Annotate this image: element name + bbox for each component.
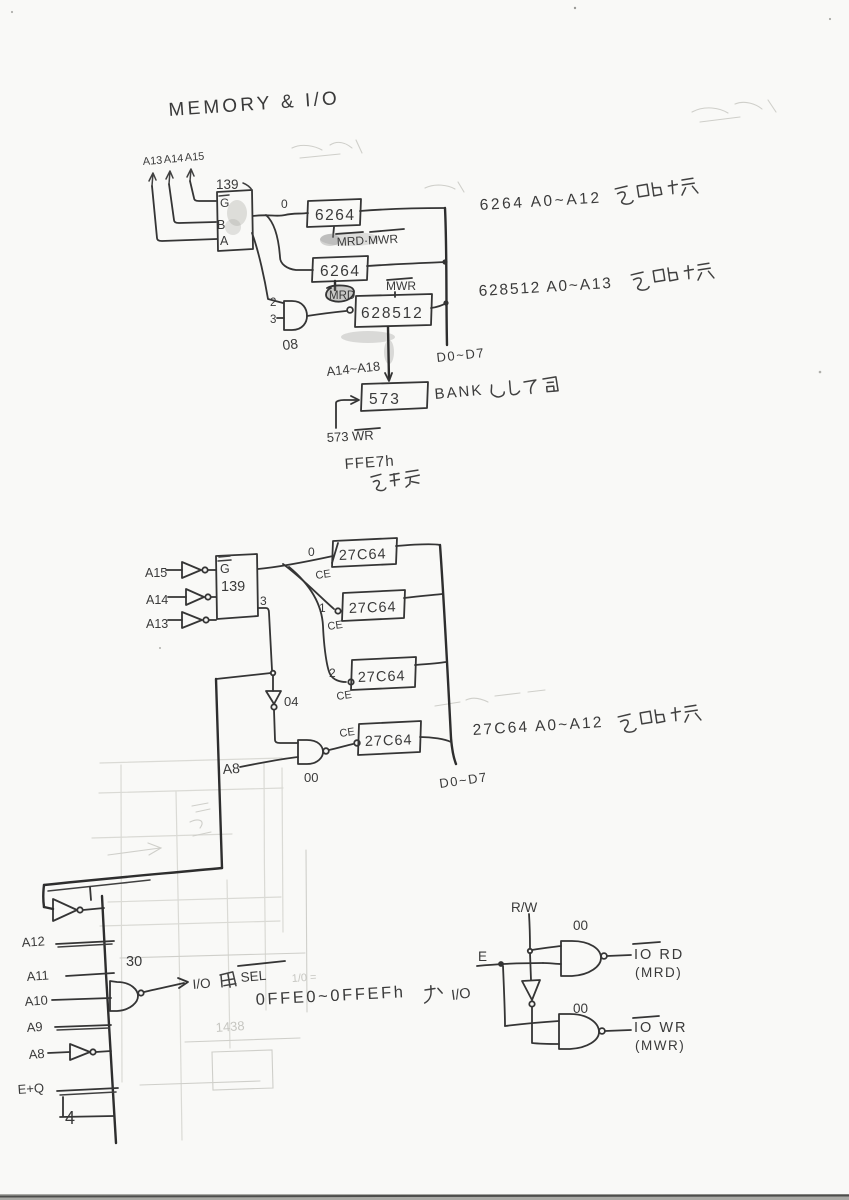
junction bubble at 04 input (271, 671, 276, 676)
wire R/W down (529, 914, 530, 948)
arrowhead A14 wire end (166, 171, 173, 184)
svg-text:A15: A15 (184, 151, 204, 164)
wire NAND to row3 CE (329, 744, 353, 750)
svg-text:04: 04 (284, 694, 298, 709)
address bus vertical (bottom left) (102, 896, 116, 1143)
memory U9 27C64 row1 box (342, 590, 405, 621)
wire E to AND1 lower input (543, 963, 561, 964)
svg-text:G: G (220, 196, 229, 210)
paper specks (574, 7, 576, 9)
svg-text:00: 00 (573, 1001, 588, 1016)
overline MRD (336, 232, 363, 234)
kanji te (524, 380, 537, 394)
latch U6 573 box (361, 382, 428, 411)
svg-text:MWR: MWR (386, 279, 416, 293)
svg-text:CE: CE (339, 726, 356, 740)
svg-text:1438: 1438 (215, 1018, 245, 1035)
wire 30 output arrow (144, 983, 184, 992)
overline WR (355, 428, 380, 430)
svg-text:E: E (478, 949, 487, 964)
svg-text:I/O: I/O (192, 975, 211, 992)
wire E to AND2 upper input (505, 1021, 559, 1026)
svg-text:CE: CE (327, 619, 344, 633)
svg-text:2: 2 (329, 666, 336, 680)
faint erased box bottom (212, 1050, 273, 1090)
svg-text:A13: A13 (146, 617, 168, 631)
svg-text:CE: CE (315, 568, 332, 582)
svg-text:A12: A12 (21, 933, 45, 950)
bubble row2 CE (348, 679, 353, 684)
inverter U15 A8 (70, 1044, 90, 1060)
overline MWR (370, 229, 404, 232)
bubble row3 CE (354, 740, 360, 746)
junction dot E (498, 961, 504, 967)
kanji shi (510, 380, 520, 395)
svg-text:4: 4 (65, 1108, 75, 1128)
svg-text:A: A (220, 234, 229, 248)
memory U10 27C64 row2 box (351, 657, 416, 690)
smudge near MRD-MWR (320, 232, 380, 246)
bubble (203, 617, 208, 622)
kanji you (220, 972, 236, 988)
wire U3 to data bus (367, 262, 445, 266)
curve 139 out1 to row1 (283, 564, 334, 609)
AND gate U4 7408 (284, 301, 307, 330)
kanji wo (shitei line) (371, 474, 386, 491)
svg-text:A14: A14 (146, 593, 168, 607)
decoder U1 139 box (217, 190, 253, 251)
wire 139 bottom to gate input 2 (252, 233, 283, 303)
wire to bus (96, 1051, 111, 1052)
svg-text:A8: A8 (28, 1046, 45, 1062)
svg-text:27C64: 27C64 (365, 732, 413, 750)
bubble (77, 907, 82, 912)
bubble (205, 594, 210, 599)
memory U8 27C64 row0 box (332, 538, 397, 567)
wire A15 to pin G (190, 181, 216, 201)
arrowhead down (385, 373, 392, 381)
memory U13 27C64 row3 box (358, 721, 421, 755)
wire to 139 (208, 569, 216, 571)
AND gate U18 00 (IORD) (561, 941, 601, 976)
wire A9 (55, 1025, 111, 1027)
bubble row1 CE (335, 608, 340, 613)
faint smudge top right (692, 100, 776, 122)
svg-text:CE: CE (336, 689, 353, 703)
tick at row0 box left (332, 543, 338, 563)
svg-text:I/O: I/O (450, 985, 471, 1004)
wire A13 to pin A (152, 186, 217, 241)
wire 139 output 0 to 6264 U2 (253, 213, 308, 216)
wire E+Q (57, 1088, 118, 1091)
svg-text:0: 0 (281, 197, 288, 211)
smudge at MRD circle (325, 286, 355, 302)
inverter A14 (186, 589, 204, 605)
data bus vertical (middle) (440, 545, 456, 764)
smudge inside 139 box (227, 200, 247, 226)
wire row3 to bus (420, 737, 451, 742)
svg-text:27C64: 27C64 (349, 599, 397, 617)
kanji hai (note1) (637, 182, 662, 197)
kanji sen (note3) (671, 705, 701, 723)
wire junction to left vertical (216, 673, 271, 679)
svg-text:IO WR: IO WR (634, 1020, 688, 1036)
kanji hai (note3) (640, 709, 665, 724)
scan bottom edge (0, 1194, 849, 1200)
kanji to (491, 384, 505, 398)
bubble (529, 1001, 534, 1006)
svg-text:SEL: SEL (240, 968, 267, 985)
svg-text:(MWR): (MWR) (635, 1038, 685, 1053)
wire A8 to NAND (240, 757, 298, 767)
arrowhead A13 wire end (149, 173, 156, 186)
svg-text:00: 00 (573, 918, 588, 933)
wire 139 output 3 down (258, 608, 272, 670)
arrowhead (178, 978, 188, 988)
svg-text:573: 573 (369, 391, 401, 408)
svg-text:27C64: 27C64 (339, 546, 387, 564)
bubble 30 output (138, 990, 143, 995)
junction node at 628512 (443, 300, 448, 305)
svg-text:A11: A11 (26, 967, 49, 984)
long horizontal wire to left (44, 868, 222, 885)
bubble (90, 1049, 95, 1054)
svg-text:A15: A15 (145, 566, 167, 580)
bubble output (601, 953, 607, 959)
wire 139 output 1 to 6264 U3 (266, 215, 313, 270)
decoder U7 139 box (216, 554, 258, 619)
kanji sen (note2) (684, 263, 714, 281)
tick mark above inverter (90, 887, 91, 900)
kanji shi (shitei) (390, 473, 400, 486)
svg-text:B: B (217, 218, 225, 232)
wire inverter to AND2 lower input (532, 1007, 559, 1044)
gate input 3 stub (277, 317, 284, 319)
svg-text:A13: A13 (142, 155, 162, 168)
corner down to inverter (42, 885, 45, 907)
wire corner into inverter (44, 907, 53, 909)
erased pencil grid horizontals (100, 758, 282, 763)
data bus vertical (top) (445, 208, 447, 345)
NAND gate U16 30 (110, 981, 138, 1011)
wire row2 to bus (415, 662, 446, 665)
bubble (271, 704, 276, 709)
svg-text:00: 00 (304, 770, 318, 785)
bubble (202, 567, 207, 572)
svg-text:A9: A9 (26, 1019, 43, 1035)
svg-text:139: 139 (221, 579, 245, 595)
arrowhead right (351, 396, 359, 404)
svg-text:2: 2 (270, 297, 276, 309)
wire to 139 (211, 596, 216, 598)
wire U2 to data bus (360, 208, 445, 211)
svg-text:08: 08 (282, 335, 299, 353)
wire E down (503, 966, 505, 1026)
overline IO (633, 942, 660, 944)
tail from 9 to box corner (243, 183, 252, 190)
AND gate U19 00 (IOWR) (559, 1014, 599, 1049)
wire to 139 (209, 619, 216, 621)
wire A14 to inverter (168, 596, 186, 598)
svg-text:6264: 6264 (315, 207, 355, 224)
wire A12 (56, 941, 114, 944)
wire junction to inverter (272, 676, 274, 691)
tick MWR to 628512 (394, 292, 396, 297)
inverter A13 (182, 612, 202, 628)
bubble at 628512 CE (347, 307, 353, 313)
wire gate output to 628512 (307, 311, 346, 316)
wire A13 to inverter (168, 619, 182, 621)
erased pencil grid verticals (121, 765, 122, 1082)
kanji wo (note2) (631, 272, 649, 291)
kanji tei (405, 470, 420, 487)
faint erased arrow (108, 843, 161, 855)
wire U5 to data bus (431, 303, 446, 308)
faint erased A0~A12 middle (435, 690, 545, 706)
svg-text:(MRD): (MRD) (635, 965, 682, 980)
wire row0 to bus (396, 544, 440, 546)
NAND gate U12 00 (298, 740, 323, 764)
wire E horizontal (477, 963, 543, 966)
wire output 0 to 27C64 row0 (258, 556, 333, 569)
wire 04 to NAND input (274, 710, 298, 743)
curve 139 out2 to row2 (289, 567, 346, 682)
faint erased scribble A8 30 (190, 803, 211, 836)
svg-text:628512: 628512 (361, 305, 424, 322)
svg-text:A14: A14 (163, 153, 183, 166)
wire A15 to inverter (166, 569, 182, 571)
memory U3 6264 box (312, 256, 368, 282)
wire A8 to inverter (48, 1052, 70, 1053)
wire under 4 (60, 1097, 114, 1117)
svg-text:1/0 =: 1/0 = (291, 971, 317, 985)
inverter U11 04 (down) (266, 691, 281, 704)
kanji wo (note1) (615, 186, 633, 205)
overline IO (633, 1016, 659, 1018)
kanji wo (note3) (618, 714, 636, 733)
svg-text:30: 30 (126, 954, 142, 970)
tick from U2 bottom (333, 227, 334, 237)
wire A10 (52, 998, 111, 1000)
bubble output (599, 1028, 605, 1034)
inverter U17 (down) (522, 980, 540, 1000)
wire 628512 to 573 latch (388, 327, 389, 380)
wire IORD out (607, 955, 631, 956)
wire junction to inverter (530, 953, 531, 980)
long vertical wire to bottom section (216, 679, 222, 868)
wire row1 to bus (404, 594, 442, 598)
svg-text:3: 3 (260, 594, 267, 608)
memory U2 6264 box (307, 199, 361, 227)
smudge under 628512 (341, 331, 395, 343)
svg-text:E+Q: E+Q (17, 1080, 44, 1097)
junction bubble R/W (528, 949, 532, 953)
wire inverter to bus (83, 908, 104, 910)
tick from U3 bottom (334, 281, 336, 290)
wire A11 (66, 973, 114, 976)
arrowhead A15 wire end (187, 169, 194, 181)
svg-text:3: 3 (270, 314, 276, 326)
katakana ga (424, 985, 443, 1003)
svg-text:FFE7h: FFE7h (344, 453, 395, 473)
svg-text:IO RD: IO RD (634, 947, 684, 963)
svg-text:G: G (220, 562, 230, 576)
kanji dou (543, 377, 558, 392)
svg-text:6264: 6264 (320, 263, 360, 280)
wire A14 to pin B (169, 184, 216, 223)
svg-text:R/W: R/W (511, 900, 538, 915)
svg-text:0: 0 (308, 545, 315, 559)
wire 573WR up arrow into 573 (336, 400, 356, 428)
svg-text:139: 139 (216, 177, 239, 192)
svg-text:27C64: 27C64 (358, 668, 406, 686)
kanji hai (note2) (653, 267, 678, 282)
svg-text:A10: A10 (24, 992, 48, 1009)
junction node at 6264-2 (442, 259, 447, 264)
faint erased text top (292, 140, 362, 158)
kanji sen (note1) (668, 178, 698, 196)
wire junction to AND1 (532, 946, 561, 950)
svg-text:573 WR: 573 WR (326, 428, 374, 445)
bubble NAND output (323, 748, 329, 754)
inverter U14 (top of bus) (53, 899, 77, 921)
memory U5 628512 box (355, 294, 432, 327)
svg-text:A8: A8 (222, 760, 240, 777)
double stroke on horizontal (48, 880, 150, 891)
wire IOWR out (605, 1030, 631, 1031)
inverter A15 (182, 562, 201, 578)
